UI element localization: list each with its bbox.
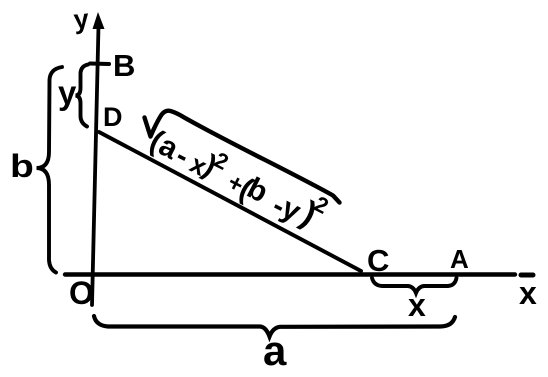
- tick at B: [90, 62, 109, 67]
- small brace y (left, between B and D): [76, 65, 89, 127]
- svg-text:x: x: [519, 275, 537, 311]
- svg-text:b: b: [10, 148, 34, 184]
- x-axis end dash: [521, 273, 533, 278]
- large underbrace a (from origin to A): [94, 316, 455, 337]
- hypotenuse line D-C: [99, 132, 361, 271]
- svg-text:x: x: [408, 287, 426, 323]
- small underbrace x (between C and A): [372, 278, 457, 293]
- svg-text:D: D: [103, 102, 123, 132]
- svg-text:C: C: [367, 243, 389, 278]
- svg-text:a: a: [263, 327, 287, 374]
- large brace b (left, from B level to x-axis): [37, 67, 63, 273]
- svg-text:A: A: [450, 244, 469, 274]
- svg-text:B: B: [113, 48, 135, 83]
- svg-text:O: O: [69, 275, 94, 311]
- x-axis: [65, 272, 515, 276]
- svg-text:y: y: [58, 74, 77, 111]
- y-axis arrowhead: [93, 12, 105, 29]
- svg-text:y: y: [72, 4, 90, 35]
- radical sign with vinculum: [145, 111, 340, 203]
- y-axis: [92, 26, 99, 305]
